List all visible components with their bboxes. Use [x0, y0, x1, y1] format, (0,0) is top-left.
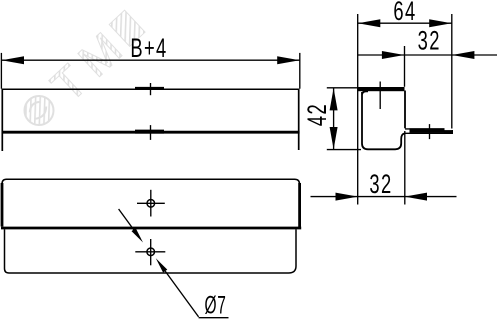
svg-text:32: 32	[369, 168, 392, 198]
top view upper-half right thick bar	[298, 183, 301, 227]
front view top edge	[2, 88, 299, 90]
section lip end bar	[444, 130, 452, 133]
hole 1 crosshair vertical	[150, 190, 152, 217]
front view hole projection dash lip	[135, 130, 164, 134]
dimension B+4 arrow right	[277, 56, 299, 64]
top view upper-half right corner arc	[295, 179, 300, 184]
top view upper-half left thick bar	[1, 183, 4, 227]
dimension B+4 extension line left	[0, 53, 2, 89]
section body outline	[362, 91, 405, 149]
front view hole projection dash top	[135, 87, 164, 90]
hole 1 crosshair horizontal	[137, 202, 165, 204]
svg-text:42: 42	[301, 103, 331, 126]
dimension 32 top line	[358, 54, 497, 56]
dimension 64 arrow left	[358, 19, 380, 27]
top view divider thick line	[1, 227, 301, 230]
front view left edge	[1, 89, 3, 151]
front view right edge	[298, 89, 300, 150]
watermark ETM logo	[11, 3, 153, 140]
dimension 32 top extension line	[404, 46, 406, 87]
leader O7 lower segment	[165, 271, 198, 317]
dimension 64 extension line right	[451, 14, 453, 129]
dimension 42 arrow down	[330, 127, 338, 149]
hole 2 circle	[147, 248, 155, 256]
hole 1 circle	[147, 200, 155, 208]
svg-text:64: 64	[393, 0, 416, 26]
top view upper-half top edge	[7, 178, 295, 180]
front view hole tick top	[150, 83, 152, 95]
dimension 32 top arrow right	[452, 51, 474, 59]
front view lip edge thick	[2, 131, 300, 134]
dimension 64 extension line left long	[357, 14, 359, 205]
dimension 42 arrow up	[330, 88, 338, 110]
dimension 64 line	[358, 22, 452, 24]
dimension 64 arrow right	[429, 19, 451, 27]
hole 2 crosshair vertical	[150, 239, 152, 265]
dimension B+4 extension line right	[299, 53, 301, 89]
svg-text:Ø7: Ø7	[205, 292, 227, 320]
leader O7 upper segment	[119, 209, 134, 230]
section lip thick bar	[410, 128, 445, 133]
section lip outline	[405, 129, 452, 133]
leader O7 lower arrow	[156, 258, 168, 272]
section lip tick	[429, 124, 431, 139]
section body right upper edge	[404, 91, 406, 129]
svg-text:32: 32	[418, 25, 441, 55]
dimension 32 bottom line	[311, 196, 457, 198]
front view hole tick lip	[150, 125, 152, 140]
dimension 32 bottom extension line right	[404, 131, 406, 205]
dimension 32 bottom arrow right	[405, 193, 427, 201]
top view upper-half left corner arc	[2, 179, 7, 184]
dimension B+4 line	[1, 59, 299, 61]
dimension 32 top arrow left	[382, 51, 404, 59]
dimension 42 extension line bottom	[327, 149, 361, 151]
top view lower-half outline	[5, 229, 297, 273]
leader O7 shelf	[199, 317, 229, 319]
dimension B+4 arrow left	[2, 56, 24, 64]
section top flange thick bar	[358, 87, 405, 91]
dimension 42 extension line top	[327, 87, 358, 89]
hole 2 crosshair horizontal	[135, 251, 165, 253]
svg-text:B+4: B+4	[130, 32, 167, 62]
section hole centerline tick	[379, 82, 381, 110]
dimension 42 line	[333, 88, 335, 150]
dimension 32 bottom arrow left	[336, 193, 358, 201]
leader O7 upper arrow	[132, 228, 144, 242]
